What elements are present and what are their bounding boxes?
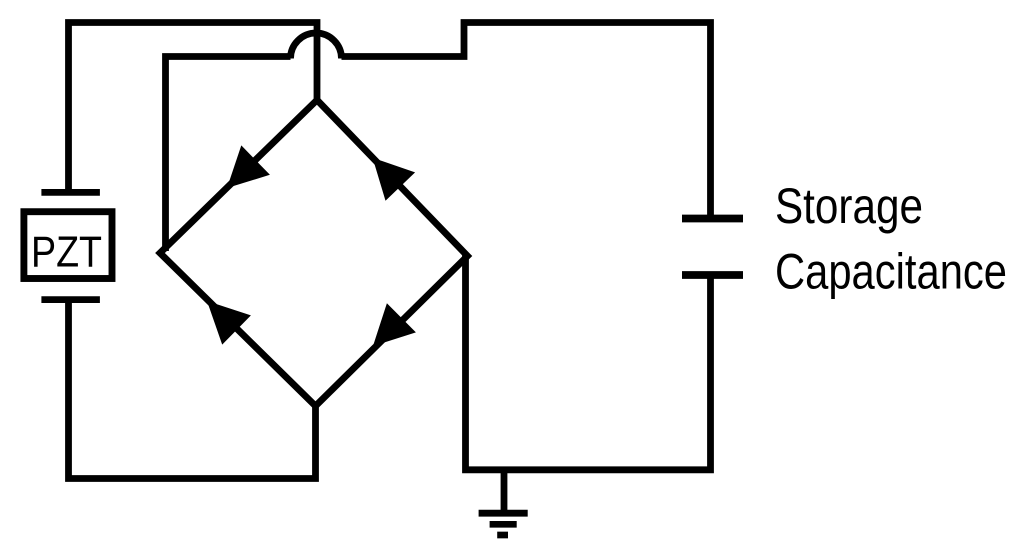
ground bar 2	[490, 521, 517, 528]
svg-text:PZT: PZT	[31, 228, 102, 277]
svg-text:Capacitance: Capacitance	[775, 244, 1007, 300]
ground bar 3	[497, 532, 508, 539]
wire: bridge left node up, across with hop over vertical wire, up step, top-right run, down to storage cap	[166, 23, 711, 252]
ground bar 1	[479, 510, 528, 517]
diode arrow D2 (upper-right edge, pointing to top node)	[373, 158, 416, 201]
diode bridge diamond	[160, 100, 468, 406]
storage capacitor bottom plate	[682, 271, 743, 279]
wire: storage cap bottom lead down, across bottom-right, up to bridge right node	[466, 254, 711, 470]
ground stem	[501, 470, 508, 513]
diode arrow D4 (lower-right edge, pointing to bottom node)	[373, 303, 416, 346]
wire: PZT top lead up, across top-left, down to bridge top node	[69, 23, 318, 191]
PZT bottom electrode plate	[41, 296, 100, 303]
wire: PZT bottom lead down, across bottom-left, up to bridge bottom node	[69, 300, 316, 479]
diode arrow D1 (upper-left edge, pointing to left node)	[227, 145, 270, 188]
PZT box	[24, 212, 112, 279]
PZT top electrode plate	[41, 189, 100, 196]
storage capacitor top plate	[682, 215, 743, 223]
diode arrow D3 (lower-left edge, pointing to left node)	[207, 301, 251, 345]
svg-text:Storage: Storage	[775, 178, 923, 234]
